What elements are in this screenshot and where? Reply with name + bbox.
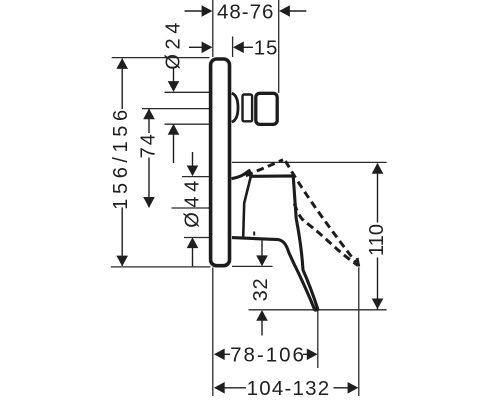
svg-text:32: 32 <box>250 278 272 302</box>
reference line plate top <box>112 57 210 59</box>
dimension 48-76 left arrow <box>185 10 204 12</box>
svg-text:Ø24: Ø24 <box>163 18 185 70</box>
reference line handle base top (O44) <box>182 176 210 178</box>
dimension 104-132 <box>214 382 225 394</box>
extension line left wall bottom <box>212 268 214 397</box>
dashed lever raised position: inner edge <box>294 204 357 266</box>
svg-text:156/156: 156/156 <box>110 105 132 210</box>
reference line handle base bottom (O44) <box>184 237 210 239</box>
dimension 156/156 <box>121 59 123 110</box>
handle clip tick <box>253 232 255 236</box>
svg-text:Ø44: Ø44 <box>182 176 204 228</box>
dimension 110 <box>372 163 384 174</box>
dashed lever raised position: outer edge <box>286 161 357 263</box>
extension line plate front (15) <box>232 37 234 58</box>
svg-text:74: 74 <box>137 132 159 158</box>
knob mid cylinder <box>243 95 253 122</box>
svg-text:110: 110 <box>366 224 388 256</box>
extension line left wall (48-76) <box>212 0 214 57</box>
reference line plate bottom <box>111 266 211 268</box>
reference line 110 bottom / handle tip <box>249 309 387 311</box>
reference line 32 top <box>232 265 273 267</box>
reference line knob top (O24) <box>165 91 210 93</box>
svg-text:78-106: 78-106 <box>230 343 306 366</box>
dimension 78-106 <box>214 349 225 361</box>
dashed lever tip <box>357 258 359 267</box>
dashed lever raised position: upper-left edge <box>246 160 283 176</box>
dimension 48-76 right arrow <box>289 10 307 12</box>
reference line 110 top <box>232 161 387 163</box>
extension line dashed handle tip (104-132) <box>358 267 360 396</box>
dimension 74 <box>148 109 150 133</box>
extension line right knob face (48-76) <box>278 0 280 93</box>
knob end cap <box>256 93 277 124</box>
dimension 32 <box>261 240 263 256</box>
reference line knob bottom (O24) <box>165 123 210 125</box>
knob neck bulge <box>232 93 238 122</box>
dimension O44 <box>192 152 194 166</box>
dimension 15 left arrow <box>189 46 203 48</box>
escutcheon plate <box>211 59 230 266</box>
reference line knob axis (74 top) <box>142 108 210 110</box>
handle body outline <box>232 171 318 310</box>
dimension 15 right arrow <box>243 46 254 48</box>
extension line solid handle tip (78-106) <box>317 310 319 368</box>
svg-text:48-76: 48-76 <box>217 1 274 24</box>
handle hub left edge <box>243 177 251 237</box>
reference line handle axis (74 bottom) <box>172 207 210 209</box>
svg-text:104-132: 104-132 <box>247 377 331 400</box>
svg-text:15: 15 <box>254 37 278 60</box>
